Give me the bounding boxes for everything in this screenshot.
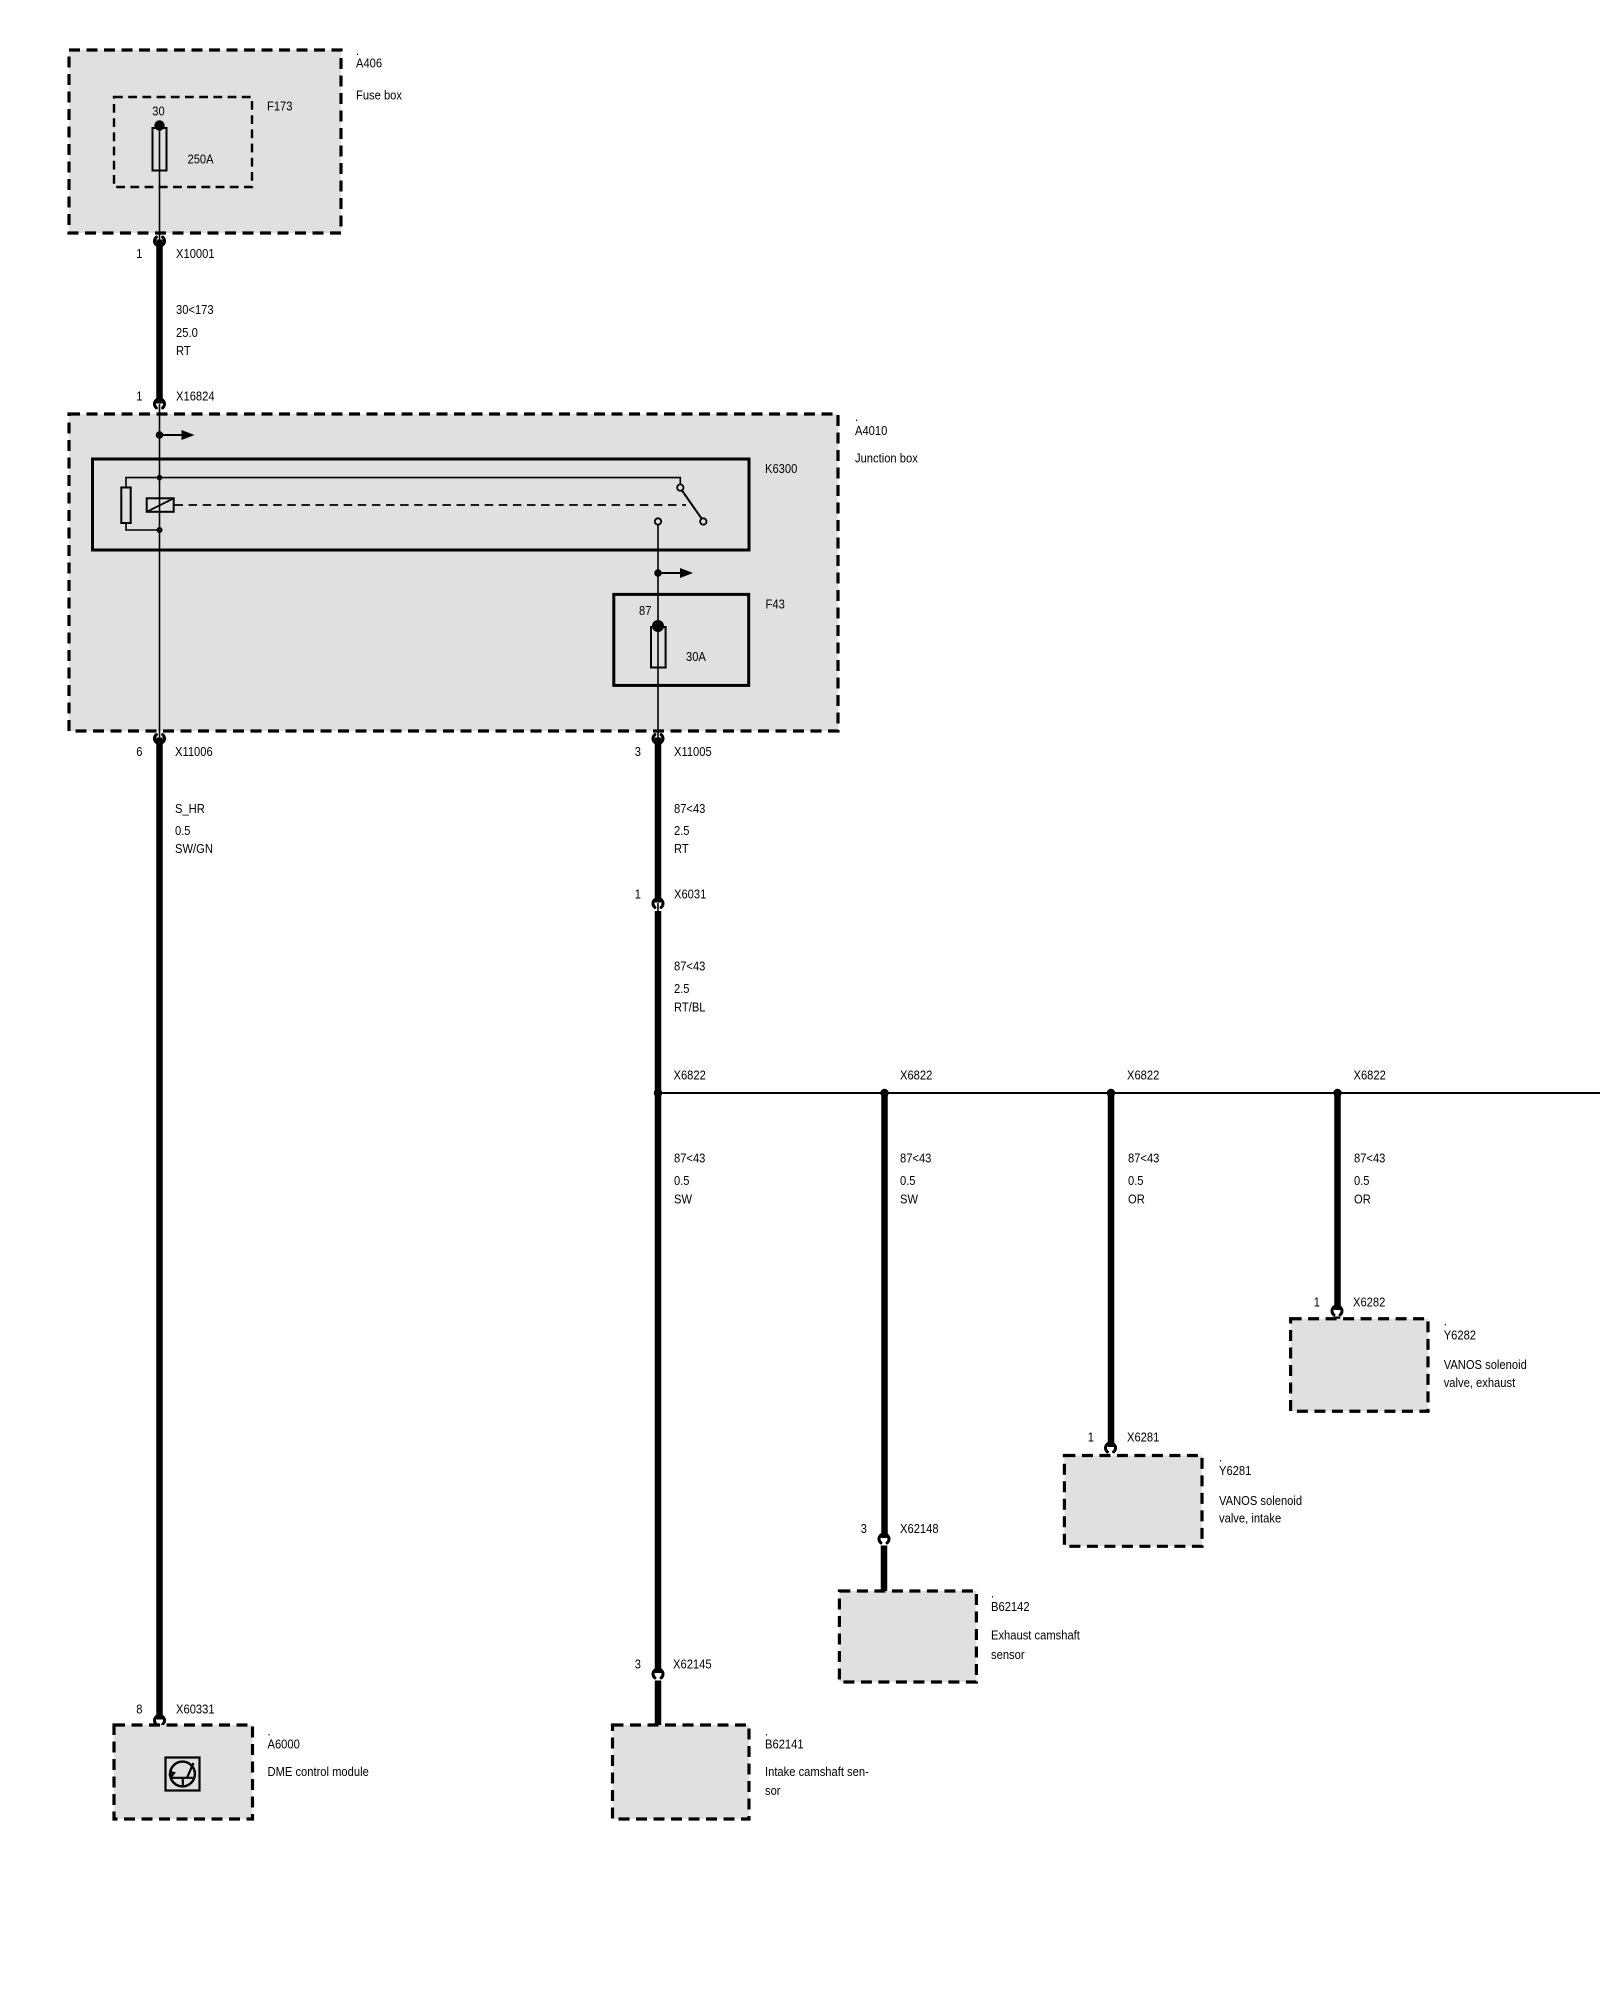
resistor branch wires bbox=[126, 478, 160, 530]
svg-text:RT: RT bbox=[674, 841, 689, 856]
current-direction arrow below relay bbox=[654, 568, 693, 578]
wire to exhaust camshaft sensor bbox=[881, 1546, 888, 1594]
svg-text:1: 1 bbox=[1314, 1295, 1320, 1310]
wire 87<43 0.5 OR to X6281 bbox=[1111, 1093, 1159, 1447]
svg-text:B62142: B62142 bbox=[991, 1599, 1030, 1614]
svg-text:250A: 250A bbox=[188, 151, 214, 166]
svg-text:X16824: X16824 bbox=[176, 389, 215, 404]
node X6822 #1 bbox=[654, 1068, 706, 1098]
fuse holder F43 bbox=[614, 594, 785, 685]
coil wire down to X11006 bbox=[159, 533, 161, 739]
svg-text:OR: OR bbox=[1128, 1191, 1145, 1206]
svg-text:VANOS solenoid: VANOS solenoid bbox=[1219, 1493, 1302, 1508]
svg-text:VANOS solenoid: VANOS solenoid bbox=[1444, 1357, 1527, 1372]
svg-text:sor: sor bbox=[765, 1783, 781, 1798]
relay coil bbox=[147, 478, 174, 533]
DME control module A6000 bbox=[114, 1724, 369, 1820]
svg-text:.: . bbox=[1444, 1314, 1447, 1329]
svg-text:0.5: 0.5 bbox=[175, 823, 191, 838]
svg-text:0.5: 0.5 bbox=[1354, 1173, 1370, 1188]
svg-text:87<43: 87<43 bbox=[1354, 1151, 1385, 1166]
svg-text:Fuse box: Fuse box bbox=[356, 88, 402, 103]
wire 87<43 0.5 SW to X62145 bbox=[658, 1093, 705, 1673]
svg-text:2.5: 2.5 bbox=[674, 823, 690, 838]
svg-text:SW: SW bbox=[674, 1191, 693, 1206]
connector X11006 pin 6 bbox=[136, 735, 212, 759]
wire to intake camshaft sensor bbox=[655, 1681, 662, 1728]
wire 87<43 0.5 SW to X62148 bbox=[885, 1093, 932, 1538]
svg-text:S_HR: S_HR bbox=[175, 801, 205, 816]
svg-text:30: 30 bbox=[152, 104, 164, 119]
svg-text:87<43: 87<43 bbox=[674, 1151, 705, 1166]
svg-text:30A: 30A bbox=[686, 649, 706, 664]
svg-text:valve, intake: valve, intake bbox=[1219, 1511, 1281, 1526]
svg-text:87: 87 bbox=[639, 603, 651, 618]
node X6822 #2 bbox=[880, 1068, 932, 1098]
splice bus X6822 bbox=[658, 1092, 1600, 1094]
svg-text:X6822: X6822 bbox=[674, 1068, 706, 1083]
connector X16824 pin 1 bbox=[136, 389, 214, 408]
svg-text:X10001: X10001 bbox=[176, 246, 215, 261]
svg-text:0.5: 0.5 bbox=[674, 1173, 690, 1188]
junction box A4010 bbox=[69, 409, 918, 731]
connector X6031 pin 1 bbox=[635, 887, 707, 913]
connector X60331 pin 8 bbox=[136, 1702, 214, 1725]
fuse F173 250A bbox=[152, 104, 214, 240]
svg-text:X11006: X11006 bbox=[175, 744, 213, 759]
wire to relay contact 30 bbox=[160, 478, 681, 485]
svg-text:Exhaust camshaft: Exhaust camshaft bbox=[991, 1628, 1080, 1643]
svg-text:1: 1 bbox=[1088, 1430, 1094, 1445]
svg-text:1: 1 bbox=[136, 246, 142, 261]
relay switch arm bbox=[682, 491, 702, 519]
svg-text:3: 3 bbox=[635, 1657, 641, 1672]
svg-text:X6281: X6281 bbox=[1127, 1430, 1159, 1445]
svg-text:X6822: X6822 bbox=[1354, 1068, 1386, 1083]
svg-text:3: 3 bbox=[635, 744, 641, 759]
svg-text:X11005: X11005 bbox=[674, 744, 712, 759]
wire to VANOS solenoid exhaust bbox=[1334, 1317, 1341, 1321]
svg-text:1: 1 bbox=[136, 389, 142, 404]
svg-text:8: 8 bbox=[136, 1702, 142, 1717]
svg-text:valve, exhaust: valve, exhaust bbox=[1444, 1375, 1516, 1390]
svg-text:RT: RT bbox=[176, 343, 191, 358]
wire S_HR 0.5 SW/GN bbox=[160, 738, 213, 1720]
svg-text:2.5: 2.5 bbox=[674, 981, 690, 996]
wire contact 87 down bbox=[657, 525, 659, 739]
VANOS solenoid valve intake Y6281 bbox=[1064, 1450, 1302, 1547]
svg-text:3: 3 bbox=[861, 1521, 867, 1536]
node at relay coil bottom bbox=[157, 527, 163, 533]
svg-text:30<173: 30<173 bbox=[176, 302, 214, 317]
svg-text:1: 1 bbox=[635, 887, 641, 902]
connector X62145 pin 3 bbox=[635, 1657, 712, 1678]
svg-text:87<43: 87<43 bbox=[674, 801, 705, 816]
svg-text:Intake camshaft sen-: Intake camshaft sen- bbox=[765, 1764, 869, 1779]
svg-text:DME control module: DME control module bbox=[268, 1764, 369, 1779]
svg-text:87<43: 87<43 bbox=[674, 959, 705, 974]
svg-text:A6000: A6000 bbox=[268, 1737, 300, 1752]
svg-text:K6300: K6300 bbox=[765, 461, 797, 476]
svg-text:A406: A406 bbox=[356, 56, 382, 71]
relay control dashed line bbox=[175, 504, 687, 506]
connector X6281 pin 1 bbox=[1088, 1430, 1160, 1452]
wire 87<43 2.5 RT/BL bbox=[658, 911, 706, 1093]
svg-text:X6822: X6822 bbox=[900, 1068, 932, 1083]
svg-text:X62148: X62148 bbox=[900, 1521, 939, 1536]
svg-text:X6031: X6031 bbox=[674, 887, 706, 902]
relay K6300 bbox=[93, 459, 798, 550]
svg-text:X6822: X6822 bbox=[1127, 1068, 1159, 1083]
svg-text:B62141: B62141 bbox=[765, 1737, 804, 1752]
svg-text:sensor: sensor bbox=[991, 1647, 1025, 1662]
connector X6282 pin 1 bbox=[1314, 1295, 1386, 1315]
resistor in relay bbox=[121, 488, 130, 524]
relay contact 87 terminal bbox=[655, 518, 661, 524]
wire through fuse F173 bbox=[159, 122, 161, 240]
svg-text:RT/BL: RT/BL bbox=[674, 1000, 706, 1015]
svg-text:0.5: 0.5 bbox=[900, 1173, 916, 1188]
svg-text:0.5: 0.5 bbox=[1128, 1173, 1144, 1188]
relay contact 30 terminal bbox=[677, 484, 683, 490]
svg-text:87<43: 87<43 bbox=[900, 1151, 931, 1166]
svg-text:.: . bbox=[855, 409, 858, 424]
intake camshaft sensor B62141 bbox=[613, 1724, 869, 1820]
svg-text:X60331: X60331 bbox=[176, 1702, 215, 1717]
svg-text:SW: SW bbox=[900, 1191, 919, 1206]
fuse box A406 bbox=[69, 43, 402, 233]
wire into junction box bbox=[159, 404, 161, 478]
svg-text:X62145: X62145 bbox=[673, 1657, 712, 1672]
node X6822 #4 bbox=[1333, 1068, 1386, 1098]
wire 87<43 0.5 OR to X6282 bbox=[1338, 1093, 1386, 1310]
connector X11005 pin 3 bbox=[635, 735, 712, 759]
svg-text:6: 6 bbox=[136, 744, 142, 759]
svg-text:OR: OR bbox=[1354, 1191, 1371, 1206]
wire 87<43 2.5 RT bbox=[658, 738, 705, 903]
node X6822 #3 bbox=[1107, 1068, 1160, 1098]
fuse F43 30A bbox=[639, 525, 706, 739]
svg-text:25.0: 25.0 bbox=[176, 325, 198, 340]
VANOS solenoid valve exhaust Y6282 bbox=[1291, 1314, 1527, 1412]
exhaust camshaft sensor B62142 bbox=[839, 1586, 1080, 1683]
connector X62148 pin 3 bbox=[861, 1521, 939, 1543]
svg-text:F173: F173 bbox=[267, 99, 293, 114]
svg-text:Y6281: Y6281 bbox=[1219, 1463, 1251, 1478]
connector X10001 pin 1 bbox=[136, 237, 214, 261]
relay arm end terminal bbox=[700, 518, 706, 524]
svg-text:F43: F43 bbox=[766, 597, 785, 612]
svg-text:Y6282: Y6282 bbox=[1444, 1328, 1476, 1343]
wire 30<173 25.0 RT bbox=[160, 240, 214, 404]
DME icon bbox=[166, 1758, 200, 1791]
svg-text:Junction box: Junction box bbox=[855, 451, 918, 466]
svg-text:SW/GN: SW/GN bbox=[175, 841, 213, 856]
node at relay coil top bbox=[157, 475, 163, 481]
fuse holder F173 bbox=[114, 97, 293, 187]
current-direction arrow at node bbox=[156, 430, 195, 440]
svg-text:X6282: X6282 bbox=[1353, 1295, 1385, 1310]
svg-text:A4010: A4010 bbox=[855, 423, 887, 438]
svg-text:87<43: 87<43 bbox=[1128, 1151, 1159, 1166]
